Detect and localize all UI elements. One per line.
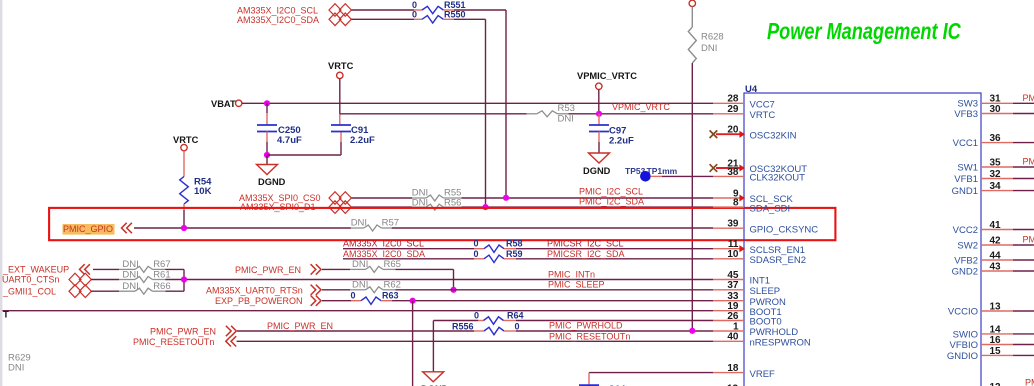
svg-text:AM335X_UART0_RTSn: AM335X_UART0_RTSn — [206, 285, 303, 295]
node PMIC_SLEEP label — [548, 280, 605, 290]
svg-text:R65: R65 — [384, 259, 401, 270]
svg-text:PMICSR_I2C_SDA: PMICSR_I2C_SDA — [547, 249, 625, 259]
wire R63 to PWRON — [392, 300, 713, 302]
wire POWERON to R63 — [322, 300, 361, 302]
pin 14 SWIO — [953, 324, 1034, 340]
off-page connector SPI0_D1 — [329, 201, 351, 214]
resistor R65 — [350, 259, 401, 272]
pin 44 VFB2 — [954, 250, 1034, 266]
svg-text:38: 38 — [727, 167, 739, 178]
wire VRTC to R53 — [340, 113, 527, 115]
svg-text:18: 18 — [727, 363, 739, 374]
svg-text:OSC32KIN: OSC32KIN — [750, 130, 797, 141]
off-page connector AM335X_I2C0_SCL — [329, 4, 351, 17]
svg-text:4.7uF: 4.7uF — [277, 135, 302, 146]
svg-text:nRESPWRON: nRESPWRON — [750, 338, 811, 349]
wire R65 corner down — [453, 269, 455, 289]
pin 34 GND1 — [952, 181, 1034, 197]
resistor R55 — [412, 188, 462, 201]
node EXT_WAKEUP port label — [2, 265, 69, 275]
wire RTSn to R62 — [322, 289, 350, 291]
svg-text:VCC1: VCC1 — [953, 138, 978, 149]
off-page connector AM335X_I2C0_SDA — [329, 13, 351, 26]
svg-text:13: 13 — [990, 301, 1002, 312]
svg-text:R64: R64 — [507, 311, 524, 321]
off-page connector PMIC_PWR_EN bottom — [226, 326, 236, 336]
svg-text:BOOT0: BOOT0 — [750, 317, 782, 328]
svg-text:GPIO_CKSYNC: GPIO_CKSYNC — [750, 224, 819, 235]
wire VRTC down — [339, 79, 341, 125]
node AM335X_I2C0_SDA label2 — [343, 249, 425, 259]
svg-text:GNDIO: GNDIO — [947, 351, 978, 362]
node PMIC_PWR_EN net label — [267, 321, 333, 331]
svg-text:PMIC_SLEEP: PMIC_SLEEP — [548, 280, 605, 290]
node PMIC_GPIO highlighted label — [63, 224, 115, 235]
pin 8 SDA_SDI — [713, 198, 790, 215]
svg-text:AM335X_SPI0_D1: AM335X_SPI0_D1 — [240, 202, 316, 212]
svg-text:VREF: VREF — [750, 369, 776, 380]
resistor R628 — [688, 7, 723, 63]
svg-text:SW1: SW1 — [957, 162, 978, 173]
capacitor C97 — [589, 125, 634, 147]
resistor R57 — [351, 217, 399, 231]
wire CS0 to R55 — [352, 197, 413, 199]
svg-text:PMIC_PWR_EN: PMIC_PWR_EN — [235, 265, 301, 275]
wire C250 bottom lead — [266, 132, 268, 156]
pin 36 VCC1 — [953, 133, 1034, 149]
svg-text:10: 10 — [727, 249, 739, 260]
svg-text:AM335X_I2C0_SDA: AM335X_I2C0_SDA — [343, 249, 425, 259]
wire PWR_EN to R65 — [322, 268, 350, 270]
svg-text:DNI: DNI — [8, 363, 24, 374]
svg-text:PMICSR_I2C_SCL: PMICSR_I2C_SCL — [547, 239, 624, 249]
wire R56 to SDA_SDI — [462, 206, 714, 208]
resistor R551 — [412, 0, 466, 14]
node VBAT — [211, 99, 242, 109]
svg-text:20: 20 — [727, 125, 739, 136]
resistor R67 — [119, 259, 170, 272]
node AM335X_UART0_RTSn port label — [206, 285, 303, 295]
svg-text:26: 26 — [727, 311, 739, 322]
wire R53 to VRTC pin — [569, 113, 714, 115]
pin 16 VFBIO — [949, 335, 1034, 351]
junction R550-SDA — [482, 204, 488, 210]
wire R65 to corner — [396, 268, 454, 270]
svg-text:R61: R61 — [153, 269, 170, 280]
svg-text:GND1: GND1 — [952, 186, 978, 197]
svg-text:_EXT_WAKEUP: _EXT_WAKEUP — [2, 265, 69, 275]
pin 10 SDASR_EN2 — [713, 249, 806, 266]
svg-text:VPMIC_VRTC: VPMIC_VRTC — [577, 71, 637, 81]
pin 33 PWRON — [713, 291, 786, 308]
node T label — [3, 310, 9, 321]
pin 35 SW1 — [957, 157, 1034, 174]
node PMIC_I2C_SDA label — [579, 196, 644, 206]
ground DGND under C250 — [257, 165, 286, 188]
svg-text:2.2uF: 2.2uF — [609, 136, 634, 147]
pin 26 BOOT0 — [713, 311, 782, 328]
svg-text:43: 43 — [990, 261, 1002, 272]
svg-text:0: 0 — [514, 321, 519, 331]
svg-text:DGND: DGND — [258, 177, 286, 187]
wire SDA to R550 — [352, 18, 423, 20]
wire VBAT to VCC7 — [242, 102, 713, 104]
svg-text:35: 35 — [990, 157, 1002, 168]
wire C250 gnd to C91 gnd — [267, 154, 341, 156]
wire R57 to GPIO_CKSYNC — [392, 227, 713, 229]
svg-text:Power Management IC: Power Management IC — [767, 19, 962, 45]
pin 19 BOOT1 — [713, 301, 782, 318]
node PMIC_PWR_EN port label mid — [235, 265, 301, 275]
svg-text:39: 39 — [727, 219, 739, 230]
svg-text:VRTC: VRTC — [750, 110, 776, 121]
off-page connector SPI0_CS0 — [329, 192, 351, 205]
resistor R54 — [180, 177, 212, 205]
svg-text:0: 0 — [473, 249, 478, 259]
svg-text:VRTC: VRTC — [173, 135, 199, 145]
node PMICSR_I2C_SDA label — [547, 249, 625, 259]
resistor R58 — [473, 239, 522, 253]
svg-text:44: 44 — [990, 250, 1002, 261]
node GMII1_COL port label — [2, 286, 56, 296]
svg-text:PMIC_PWR_EN: PMIC_PWR_EN — [267, 321, 333, 331]
svg-text:VCCIO: VCCIO — [948, 306, 978, 317]
svg-text:VBAT: VBAT — [211, 99, 236, 109]
svg-text:R66: R66 — [153, 281, 170, 292]
junction R551-SCL — [503, 195, 509, 201]
pin 11 SCLSR_EN1 — [713, 239, 805, 256]
pin 42 SW2 — [957, 235, 1034, 252]
svg-text:0: 0 — [473, 239, 478, 249]
svg-text:R56: R56 — [444, 197, 461, 208]
svg-text:VCC7: VCC7 — [750, 100, 775, 111]
svg-text:SDA_SDI: SDA_SDI — [750, 203, 791, 214]
svg-text:VCC2: VCC2 — [953, 225, 978, 236]
resistor R63 — [350, 291, 398, 305]
resistor R66 — [119, 281, 170, 294]
svg-text:GND2: GND2 — [952, 266, 978, 277]
junction R65-SLEEP — [450, 287, 456, 293]
svg-text:0: 0 — [350, 291, 355, 301]
wire GMII — [91, 290, 119, 292]
pin 13 VCCIO — [948, 301, 1034, 317]
svg-text:PMIC_RESETOUTn: PMIC_RESETOUTn — [133, 337, 214, 347]
resistor R61 — [119, 269, 170, 282]
svg-text:DNI: DNI — [558, 113, 574, 124]
svg-text:41: 41 — [990, 220, 1002, 231]
wire R64 to BOOT0 — [516, 320, 713, 322]
node VPMIC_VRTC power — [577, 71, 637, 90]
wire R67 to corner — [165, 268, 184, 270]
svg-text:AM335X_I2C0_SDA: AM335X_I2C0_SDA — [237, 15, 319, 25]
page border — [0, 0, 2, 386]
pin 28 VCC7 — [713, 94, 775, 111]
svg-text:PMIC_INTn: PMIC_INTn — [548, 269, 595, 279]
svg-text:32: 32 — [990, 169, 1002, 180]
svg-text:36: 36 — [990, 133, 1002, 144]
resistor R556 — [452, 321, 520, 334]
node PMIC_PWRHOLD label — [549, 321, 623, 331]
testpoint TP53 TP1mm — [625, 166, 678, 182]
resistor R53 — [527, 103, 575, 124]
svg-text:EXP_PB_POWERON: EXP_PB_POWERON — [215, 296, 303, 306]
off-page connector PMIC_PWR_EN mid — [311, 264, 321, 274]
resistor R550 — [412, 9, 466, 23]
node AM335X_SPI0_D1 port label — [240, 202, 316, 212]
wire POWERON vertical — [412, 301, 414, 386]
svg-text:CLK32KOUT: CLK32KOUT — [750, 173, 806, 184]
ground DGND under C97 — [583, 153, 611, 176]
off-page connector PMIC_RESETOUTn — [226, 336, 236, 346]
wire GPIO to R57 — [134, 227, 351, 229]
svg-text:SWIO: SWIO — [953, 329, 978, 340]
svg-text:R550: R550 — [444, 9, 466, 19]
svg-text:DNI: DNI — [701, 43, 717, 54]
wire SCL to R551 — [352, 9, 423, 11]
svg-text:_GMII1_COL: _GMII1_COL — [2, 286, 56, 296]
wire R59 to SDASR_EN2 — [516, 258, 713, 260]
node VRTC left — [173, 135, 199, 151]
node AM335X_I2C0_SDA port label — [237, 15, 319, 25]
node PMIC_INTn label — [548, 269, 595, 279]
resistor R56 — [412, 197, 462, 210]
junction C250-DGND — [264, 152, 270, 158]
pin 32 VFB1 — [954, 169, 1034, 185]
junction R628-PWRHOLD — [689, 328, 695, 334]
wire VPMIC down — [598, 90, 600, 114]
svg-text:PMIC_GPIO: PMIC_GPIO — [63, 224, 113, 234]
svg-text:DGND: DGND — [583, 166, 611, 176]
svg-text:10K: 10K — [194, 186, 212, 197]
svg-text:SW2: SW2 — [957, 240, 978, 251]
node AM335X_I2C0_SCL label2 — [343, 239, 424, 249]
node UART0_CTSn port label — [2, 275, 59, 285]
pin 43 GND2 — [952, 261, 1034, 277]
wire R64 gnd vertical — [432, 321, 434, 372]
pin 20 OSC32KIN — [710, 125, 797, 142]
wire D1 to R56 — [352, 206, 413, 208]
off-page connector GMII1_COL — [69, 285, 91, 298]
svg-text:R63: R63 — [382, 291, 399, 301]
node PMIC_PWR_EN port label bottom — [150, 327, 216, 337]
svg-text:0: 0 — [474, 311, 479, 321]
svg-text:PMIC_PWRHOLD: PMIC_PWRHOLD — [549, 321, 623, 331]
off-page connector EXT_WAKEUP — [80, 264, 90, 274]
junction merge INT1 — [181, 276, 187, 282]
svg-text:VRTC: VRTC — [328, 61, 354, 71]
svg-text:2.2uF: 2.2uF — [350, 135, 375, 146]
component U4 box — [744, 84, 981, 386]
svg-text:AM335X_I2C0_SCL: AM335X_I2C0_SCL — [343, 239, 424, 249]
svg-text:34: 34 — [990, 181, 1002, 192]
wire VRTC to R54 — [183, 151, 185, 177]
off-page connector UART0_RTSn — [311, 285, 321, 295]
title Power Management IC — [767, 19, 962, 45]
wire BOOT1 row — [0, 310, 713, 312]
wire VREF row — [589, 372, 713, 374]
svg-text:R628: R628 — [701, 32, 724, 43]
capacitor bottom fragment — [579, 384, 626, 386]
pin 40 nRESPWRON — [713, 332, 811, 349]
svg-text:28: 28 — [727, 94, 739, 105]
wire I2C0_SDA2 — [343, 258, 484, 260]
svg-text:PMIC: PMIC — [1023, 235, 1034, 245]
off-page connector EXP_PB_POWERON — [311, 296, 321, 306]
wire VREF down to cap — [588, 373, 590, 385]
svg-text:40: 40 — [727, 332, 739, 343]
wire EXT_WAKEUP — [93, 268, 119, 270]
ground DGND under R64 — [421, 372, 449, 386]
resistor R59 — [473, 249, 522, 263]
pin 37 SLEEP — [713, 280, 780, 297]
svg-text:PMIC_PWR_EN: PMIC_PWR_EN — [150, 327, 216, 337]
svg-text:TP1mm: TP1mm — [647, 166, 678, 176]
pin 38 CLK32KOUT — [713, 167, 805, 184]
svg-text:PMIC_RESETOUTn: PMIC_RESETOUTn — [549, 331, 630, 341]
svg-text:PMIC_I2C_SCL: PMIC_I2C_SCL — [579, 186, 643, 196]
svg-text:PM: PM — [1025, 378, 1034, 386]
pin 15 GNDIO — [947, 346, 1034, 362]
svg-text:UART0_CTSn: UART0_CTSn — [2, 275, 59, 285]
selection box around PMIC_GPIO net — [49, 208, 835, 240]
svg-text:VFB2: VFB2 — [954, 255, 978, 266]
off-page connector PMIC_GPIO — [122, 223, 132, 233]
svg-text:PMIC_I2C_SDA: PMIC_I2C_SDA — [579, 196, 644, 206]
svg-text:PMIC: PMIC — [1023, 93, 1034, 103]
node PMIC_I2C_SCL label — [579, 186, 643, 196]
wire RESETOUT row — [237, 340, 713, 342]
pin 39 GPIO_CKSYNC — [713, 219, 818, 236]
svg-text:12: 12 — [990, 382, 1002, 386]
node VPMIC_VRTC net label — [612, 102, 670, 112]
wire CTSn — [91, 279, 119, 281]
node EXP_PB_POWERON port label — [215, 296, 303, 306]
svg-text:29: 29 — [727, 104, 739, 115]
wire C97 bottom lead — [598, 132, 600, 154]
wire to DGND1 — [266, 155, 268, 165]
capacitor C250 — [257, 125, 302, 146]
junction POWERON branch — [410, 298, 416, 304]
svg-text:R62: R62 — [384, 279, 401, 290]
resistor R62 — [350, 279, 401, 292]
svg-text:R556: R556 — [452, 321, 474, 331]
junction VBAT-C250 — [264, 100, 270, 106]
svg-text:8: 8 — [733, 198, 739, 209]
pin 9 SCL_SCK — [713, 188, 793, 205]
svg-text:30: 30 — [990, 104, 1002, 115]
wire R66 to corner — [165, 290, 184, 292]
resistor R629 — [8, 352, 31, 373]
wire TP53 to CLK32KOUT — [651, 175, 713, 177]
wire R556 to PWRHOLD — [516, 330, 713, 332]
svg-text:R57: R57 — [382, 217, 399, 228]
wire C97 top lead — [598, 114, 600, 125]
pin 18 VREF — [713, 363, 775, 380]
wire I2C0_SCL2 — [343, 248, 484, 250]
pin fragment bottom right — [990, 378, 1034, 386]
svg-text:VPMIC_VRTC: VPMIC_VRTC — [612, 102, 670, 112]
wire EXT corner down — [183, 269, 185, 291]
svg-text:42: 42 — [990, 235, 1002, 246]
node PMIC_RESETOUTn label — [549, 331, 630, 341]
node PMICSR_I2C_SCL label — [547, 239, 624, 249]
svg-text:14: 14 — [990, 324, 1002, 335]
wire R55 to SCL_SCK — [462, 197, 714, 199]
wire R551 vertical — [505, 10, 507, 198]
svg-text:SDASR_EN2: SDASR_EN2 — [750, 255, 807, 266]
junction R54-GPIO — [181, 225, 187, 231]
svg-text:16: 16 — [990, 335, 1002, 346]
wire R62 to SLEEP — [396, 289, 714, 291]
wire CTSn to INT1 — [165, 279, 713, 281]
svg-text:PMIC: PMIC — [1023, 157, 1034, 167]
off-page connector UART0_CTSn — [69, 273, 91, 286]
pin 29 VRTC — [713, 104, 775, 121]
wire PWRHOLD left — [237, 330, 484, 332]
junction VPMIC-C97 — [596, 111, 602, 117]
svg-text:SLEEP: SLEEP — [750, 286, 781, 297]
node VRTC top — [328, 61, 354, 79]
wire R550 to corner — [443, 18, 485, 20]
node AM335X_SPI0_CS0 port label — [239, 193, 321, 203]
svg-text:37: 37 — [727, 280, 739, 291]
junction VRTC-VPMIC row — [0, 0, 1, 1]
svg-text:R59: R59 — [506, 249, 523, 259]
wire C250 top lead — [266, 103, 268, 125]
wire C91 bottom lead — [340, 132, 342, 156]
wire R54 to GPIO row — [183, 204, 185, 228]
pin 1 PWRHOLD — [713, 321, 798, 338]
power symbol top of R628 — [689, 0, 695, 6]
svg-text:VFB1: VFB1 — [954, 174, 978, 185]
svg-text:0: 0 — [412, 9, 417, 19]
wire R551 to corner — [443, 9, 506, 11]
wire R64 corner — [433, 320, 483, 322]
svg-text:VFB3: VFB3 — [954, 109, 978, 120]
wire R58 to SCLSR_EN1 — [516, 248, 713, 250]
svg-text:VFBIO: VFBIO — [949, 340, 978, 351]
pin 31 SW3 — [957, 93, 1034, 110]
wire R628 to PWRHOLD junction — [691, 63, 693, 331]
wire R550 vertical — [485, 19, 487, 207]
pin 30 VFB3 — [954, 104, 1034, 120]
pin 41 VCC2 — [953, 220, 1034, 236]
svg-text:R58: R58 — [506, 239, 523, 249]
pin 45 INT1 — [713, 270, 770, 287]
pin 21 OSC32KOUT — [710, 158, 808, 175]
capacitor C91 — [331, 125, 375, 146]
node PMIC_RESETOUTn port label — [133, 337, 214, 347]
resistor R64 — [474, 311, 524, 325]
pin fragment bottom left — [727, 384, 739, 386]
node AM335X_I2C0_SCL port label — [237, 5, 318, 15]
svg-text:15: 15 — [990, 346, 1002, 357]
